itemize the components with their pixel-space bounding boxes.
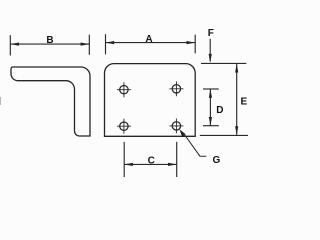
bottom extension line [200,134,248,136]
svg-text:B: B [46,35,53,46]
dimension A [106,34,196,54]
dimension D [203,89,219,126]
svg-text:D: D [216,105,223,116]
hole bottom-left [117,119,131,134]
dimension F [209,39,211,62]
top extension line [201,62,246,64]
bracket top view plate outline [105,64,196,137]
svg-text:E: E [241,97,248,108]
scan artifact left edge [0,97,2,105]
svg-text:G: G [213,155,221,166]
svg-text:A: A [145,34,152,45]
leader G [179,129,185,137]
hole top-left [117,82,131,97]
hole top-right [169,81,183,96]
svg-text:C: C [148,155,155,166]
bracket side view outline [11,67,90,136]
hole bottom-right [169,119,183,134]
dimension B [10,35,89,56]
dimension C [124,142,177,177]
dimension E [236,64,238,135]
svg-text:F: F [208,28,214,39]
